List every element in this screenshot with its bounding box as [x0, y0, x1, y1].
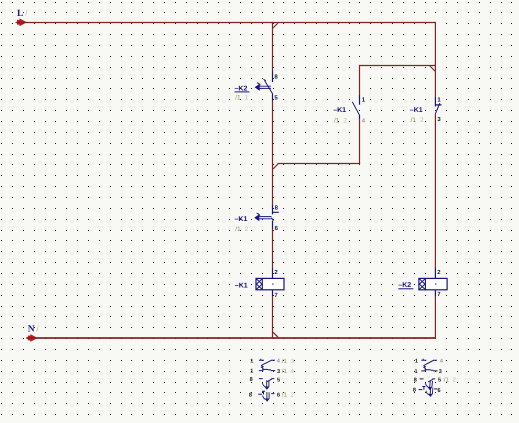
- node L1 supply arrow: [20, 18, 27, 26]
- contact -K2 actuator arrow: [260, 86, 271, 88]
- wire branch top horizontal: [360, 65, 436, 67]
- K2 mirror row1 NO contact 1-4 symbol: [421, 359, 437, 365]
- wire right vertical lower segment: [434, 296, 436, 339]
- coil K2 pin 7 stub: [434, 290, 436, 296]
- svg-text:/1: /1: [282, 358, 288, 365]
- node N supply arrow: [30, 334, 37, 342]
- svg-text:5: 5: [438, 377, 441, 383]
- node T-junction branch to left vertical (fillet): [273, 164, 278, 169]
- K2 mirror row2 NC contact 1-3 symbol: [421, 368, 437, 371]
- K1 mirror row2 NC contact 1-3 symbol: [259, 368, 275, 371]
- svg-text:2: 2: [343, 118, 347, 125]
- wire left vertical segment 2: [272, 100, 274, 205]
- svg-text:1: 1: [250, 358, 253, 364]
- svg-text:–K1: –K1: [235, 283, 248, 290]
- node T-junction left vertical to N (fillet): [273, 332, 278, 337]
- svg-text:3: 3: [277, 369, 280, 375]
- svg-text:–K1: –K1: [333, 107, 346, 114]
- coil K1 pin 7 stub: [272, 290, 274, 296]
- svg-text:/1: /1: [411, 117, 417, 124]
- relay coil -K2 body: [419, 278, 447, 289]
- wire left vertical segment 3: [272, 228, 274, 268]
- svg-text:/1: /1: [282, 392, 288, 399]
- svg-text:8: 8: [249, 392, 252, 398]
- contact -K2 NO blade: [264, 79, 273, 93]
- svg-text:/1: /1: [444, 377, 450, 384]
- K2 mirror row3 contact 8-5 with actuator arrow: [420, 379, 436, 382]
- K1 mirror row3 contact 8-5 with actuator arrow: [259, 379, 274, 382]
- svg-text:L: L: [17, 9, 23, 19]
- svg-text:1: 1: [415, 369, 418, 375]
- wire right vertical upper segment: [434, 22, 436, 97]
- contact K2 pin 5 stub: [272, 94, 274, 101]
- svg-text:/1: /1: [235, 226, 241, 233]
- svg-text:N: N: [28, 325, 35, 335]
- svg-text:–K1: –K1: [235, 216, 248, 223]
- coil K1 pin 2 stub: [272, 268, 274, 278]
- svg-text:2: 2: [420, 117, 424, 124]
- contact K1 pin 4 stub: [359, 115, 361, 119]
- K2 mirror row4 contact 8-6 with actuator arrow: [419, 387, 438, 390]
- svg-text:6: 6: [438, 388, 441, 394]
- K1 mirror row4 contact 8-6 with actuator arrow: [258, 391, 274, 394]
- svg-text:8: 8: [250, 377, 253, 383]
- contact K1 pin 1 stub: [359, 96, 361, 105]
- svg-text:1: 1: [245, 95, 249, 102]
- relay coil -K1 body: [256, 278, 284, 289]
- node T-junction branch to right vertical (fillet): [430, 66, 435, 71]
- svg-text:/1: /1: [282, 368, 288, 375]
- contact -K1 NC blade with actuator arrow: [259, 217, 273, 221]
- K1 mirror row1 NO contact 1-4 symbol: [259, 359, 275, 365]
- mechanical link between K1 mirror rows 1-2: [261, 365, 263, 370]
- mechanical link between K2 mirror rows 1-2: [424, 365, 426, 370]
- wire right vertical middle segment: [434, 114, 436, 269]
- wire L top horizontal: [16, 22, 436, 24]
- svg-text:1: 1: [415, 358, 418, 364]
- contact K2 pin 8 stub: [272, 71, 274, 82]
- contact -K1 NO blade (branch): [352, 102, 359, 115]
- svg-text:5: 5: [277, 377, 280, 383]
- svg-text:3: 3: [439, 369, 442, 375]
- svg-text:8: 8: [414, 377, 417, 383]
- contact K1 pin 6 stub: [272, 221, 274, 229]
- wire N bottom horizontal: [26, 337, 436, 339]
- wire branch middle vertical lower: [359, 118, 361, 164]
- contact -K1 NC blade (right): [435, 103, 439, 114]
- svg-text:2: 2: [245, 226, 249, 233]
- wire left vertical segment 4: [272, 296, 274, 338]
- svg-text:–K2: –K2: [398, 282, 411, 289]
- svg-text:–K2: –K2: [235, 85, 248, 92]
- wire branch bottom horizontal: [278, 163, 361, 165]
- svg-text:1: 1: [250, 369, 253, 375]
- node T-junction L to left branch (fillet): [273, 23, 278, 28]
- coil K2 pin 2 stub: [434, 268, 436, 278]
- contact K1 right pin 1 stub with stop bar: [435, 97, 441, 107]
- wire branch middle vertical upper: [359, 65, 361, 96]
- svg-text:8: 8: [413, 388, 416, 394]
- svg-text:6: 6: [277, 393, 280, 399]
- svg-text:/1: /1: [235, 95, 241, 102]
- svg-text:–K1: –K1: [410, 107, 423, 114]
- svg-text:/1: /1: [334, 118, 340, 125]
- wire left vertical segment 1: [272, 22, 274, 72]
- contact K1 pin 8 stub with stop bar: [273, 205, 279, 214]
